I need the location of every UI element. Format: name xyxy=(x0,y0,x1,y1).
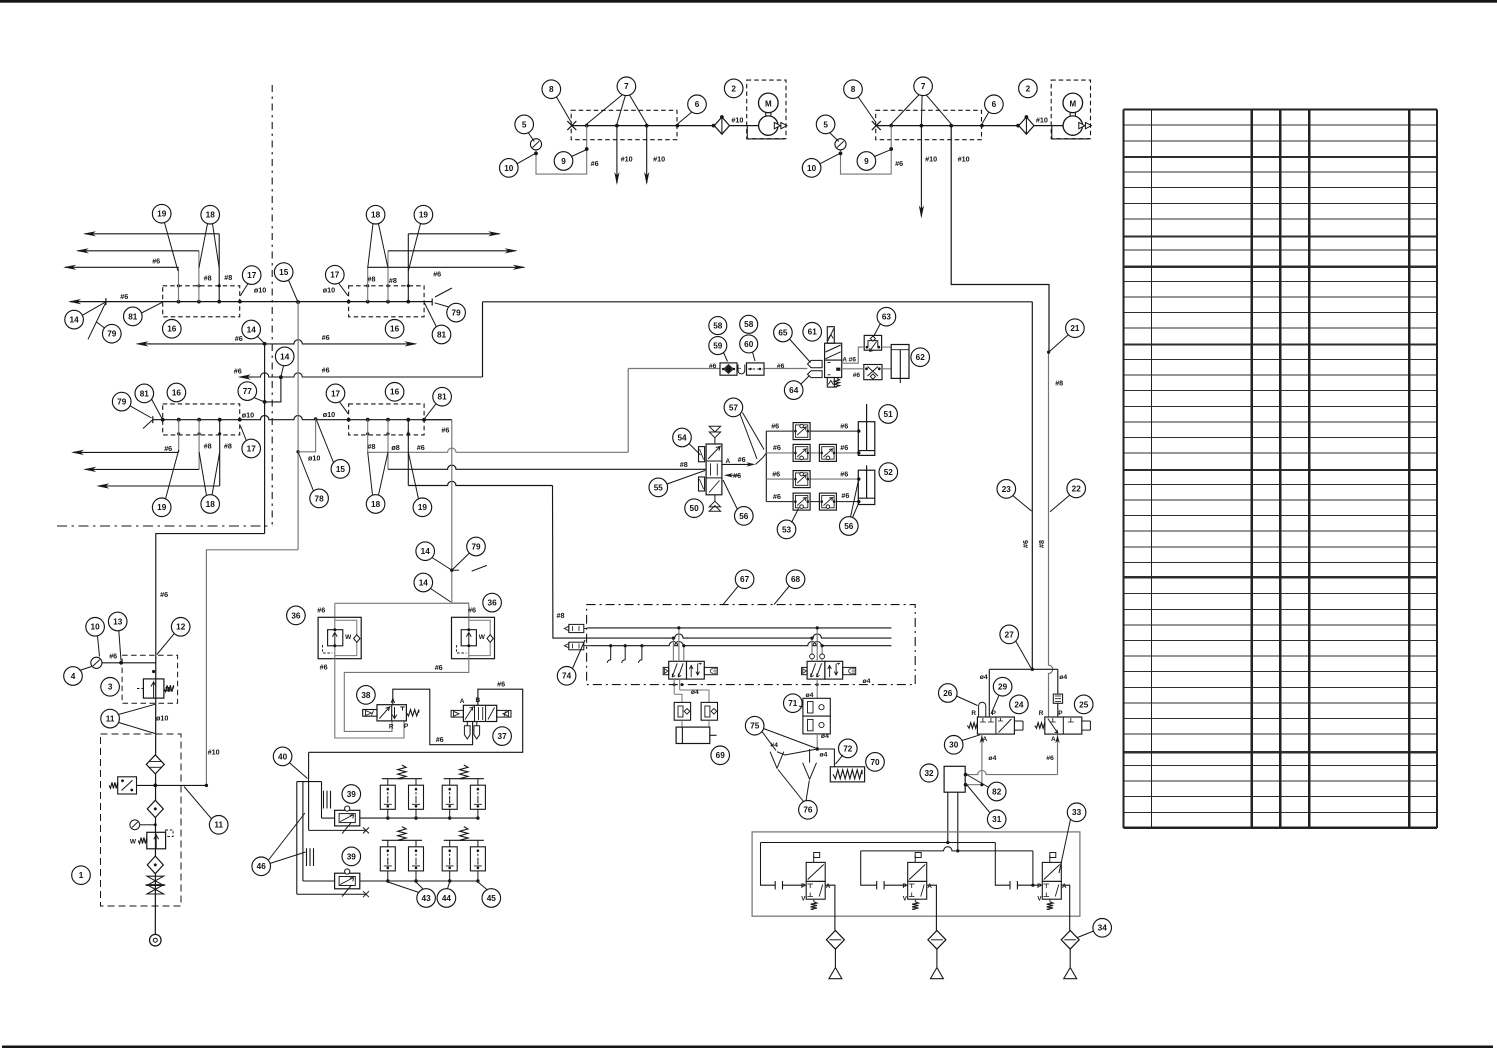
svg-text:58: 58 xyxy=(744,320,754,329)
valve 38 A wire to valve 37 xyxy=(393,689,473,745)
balloon 17 xyxy=(326,384,345,403)
svg-text:#6: #6 xyxy=(895,159,903,168)
svg-text:A: A xyxy=(842,357,847,364)
svg-text:R: R xyxy=(389,724,394,731)
svg-text:24: 24 xyxy=(1014,700,1024,709)
svg-text:#8: #8 xyxy=(557,611,565,620)
#8 wire from LR manifold to control manifold xyxy=(553,486,587,639)
filter 3 xyxy=(147,856,163,874)
compressor pump circle xyxy=(1063,116,1082,135)
pilot chain main wire xyxy=(628,368,720,370)
cylinder row riser xyxy=(765,431,767,502)
svg-text:A: A xyxy=(826,883,831,890)
break slash lower-left xyxy=(143,419,154,429)
svg-text:44: 44 xyxy=(442,894,452,903)
balloon 25 xyxy=(1074,695,1093,714)
svg-text:#6: #6 xyxy=(234,367,242,376)
balloon 70 xyxy=(866,753,885,772)
air prep supply wire elbow xyxy=(156,534,265,656)
svg-text:#6: #6 xyxy=(320,663,328,672)
svg-text:#6: #6 xyxy=(591,159,599,168)
check valve 71 a xyxy=(803,698,830,716)
valve 38 spring xyxy=(406,710,418,716)
balloon 8 xyxy=(844,80,863,99)
balloon 58 xyxy=(740,315,758,333)
svg-text:#10: #10 xyxy=(731,116,743,125)
main air line xyxy=(572,125,759,127)
svg-text:#8: #8 xyxy=(389,276,397,285)
svg-text:#6: #6 xyxy=(709,363,717,370)
svg-text:#6: #6 xyxy=(840,469,848,478)
balloon 7 xyxy=(617,77,636,96)
valve 24 P drop xyxy=(988,669,990,722)
svg-text:#6: #6 xyxy=(164,444,172,453)
valve 71 output drop xyxy=(816,679,818,698)
balloon 61 xyxy=(803,323,822,342)
svg-text:6: 6 xyxy=(992,100,997,109)
valve 61 body xyxy=(825,360,842,377)
svg-text:67: 67 xyxy=(740,575,750,584)
svg-text:5: 5 xyxy=(522,120,527,129)
balloon 79 xyxy=(467,537,486,556)
balloon 64 xyxy=(784,381,803,400)
balloon 51 xyxy=(879,405,898,424)
svg-text:58: 58 xyxy=(713,322,723,331)
main lower header line (o10) xyxy=(153,416,452,420)
dump valve enclosure xyxy=(752,832,1080,916)
svg-text:52: 52 xyxy=(884,468,894,477)
test port wire 2 xyxy=(297,893,366,895)
valve 61 bottom pilot with spring xyxy=(827,378,834,388)
plugged port X symbol xyxy=(872,121,881,130)
balloon 18 xyxy=(201,205,220,224)
svg-text:14: 14 xyxy=(247,325,257,334)
svg-text:9: 9 xyxy=(561,157,566,166)
quick exhaust V symbols 75/76 xyxy=(777,749,817,755)
svg-text:30: 30 xyxy=(949,741,959,750)
svg-text:#6: #6 xyxy=(733,471,741,480)
svg-text:11: 11 xyxy=(106,715,115,724)
svg-text:4: 4 xyxy=(71,672,76,681)
relief valve 36 left box xyxy=(318,617,361,658)
valve A output wires xyxy=(981,734,983,785)
svg-text:17: 17 xyxy=(330,271,340,280)
pressure gauge xyxy=(835,139,846,150)
wire corner to upper right header xyxy=(482,302,484,377)
balloon 72 xyxy=(839,739,858,758)
bus plug fitting C xyxy=(569,642,584,650)
svg-text:56: 56 xyxy=(739,512,749,521)
svg-text:75: 75 xyxy=(750,722,760,731)
balloon 63 xyxy=(877,307,896,326)
compressor pump circle xyxy=(759,116,778,135)
svg-text:#6: #6 xyxy=(235,334,243,343)
svg-text:10: 10 xyxy=(504,164,514,173)
flow control 64 lower xyxy=(864,365,882,380)
balloon 36 xyxy=(287,606,306,625)
svg-text:ø10: ø10 xyxy=(156,714,168,723)
svg-text:#6: #6 xyxy=(773,492,781,501)
svg-text:P: P xyxy=(903,883,907,890)
svg-text:43: 43 xyxy=(422,894,432,903)
svg-text:56: 56 xyxy=(844,522,854,531)
svg-text:62: 62 xyxy=(916,353,926,362)
svg-text:ø4: ø4 xyxy=(980,674,988,681)
check pair bank1 left xyxy=(380,785,395,809)
#6 riser wire from upper header xyxy=(1031,302,1033,670)
svg-text:ø4: ø4 xyxy=(1059,674,1067,681)
balloon 44 xyxy=(437,889,456,908)
svg-text:#6: #6 xyxy=(322,333,330,342)
svg-text:ø10: ø10 xyxy=(308,454,320,463)
check valve 71 b xyxy=(803,716,830,734)
pilot valve 24 xyxy=(977,717,1014,734)
balloon 18 xyxy=(366,205,385,224)
svg-text:7: 7 xyxy=(624,82,629,91)
check pair bank2 left xyxy=(380,847,395,871)
balloon 33 xyxy=(1067,803,1086,822)
svg-text:19: 19 xyxy=(157,503,167,512)
bus line A xyxy=(587,627,891,629)
svg-text:#10: #10 xyxy=(1036,116,1048,125)
compressor receiver dashed box xyxy=(571,110,677,139)
svg-text:79: 79 xyxy=(452,309,462,318)
svg-text:40: 40 xyxy=(278,752,288,761)
svg-text:51: 51 xyxy=(884,410,894,419)
svg-text:61: 61 xyxy=(808,328,818,337)
svg-text:#10: #10 xyxy=(958,155,970,164)
balloon 16 xyxy=(385,383,404,402)
balloon 81 xyxy=(433,387,452,406)
plugged port X symbol xyxy=(567,121,576,130)
check pair bank2 right xyxy=(442,847,457,871)
svg-text:#6: #6 xyxy=(322,365,330,374)
balloon 39 xyxy=(342,847,361,866)
flow control 63 xyxy=(864,335,881,350)
cylinder 52 xyxy=(858,470,875,504)
svg-text:57: 57 xyxy=(729,403,739,412)
svg-text:13: 13 xyxy=(113,617,123,626)
horizontal boundary dashed line xyxy=(57,525,272,527)
svg-text:18: 18 xyxy=(206,211,216,220)
svg-text:#6: #6 xyxy=(468,605,476,614)
balloon 14 xyxy=(242,320,261,339)
balloon 67 xyxy=(735,570,754,589)
main air line xyxy=(876,125,1063,127)
main header line upper (o10) xyxy=(70,301,432,303)
svg-text:64: 64 xyxy=(789,386,799,395)
dump valve 1 feed xyxy=(761,843,776,886)
pressure gauge xyxy=(530,139,541,150)
manifold LL stub 2 xyxy=(198,420,200,470)
svg-text:#8: #8 xyxy=(1055,379,1063,388)
air prep main vertical line xyxy=(154,655,157,940)
svg-text:#6: #6 xyxy=(1021,540,1030,548)
balloon 74 xyxy=(557,667,576,686)
balloon 11 xyxy=(101,709,120,728)
svg-text:#6: #6 xyxy=(120,292,128,301)
balloon 22 xyxy=(1067,479,1086,498)
union U fitting xyxy=(738,365,745,374)
balloon 19 xyxy=(152,498,171,517)
svg-text:M: M xyxy=(765,99,772,108)
pilot chain wire riser xyxy=(627,369,629,453)
svg-text:38: 38 xyxy=(361,691,371,700)
balloon 55 xyxy=(649,478,668,497)
break slash upper-right xyxy=(435,288,452,297)
manifold UR stub 1 xyxy=(367,267,369,301)
svg-text:81: 81 xyxy=(140,389,150,398)
hose symbol marks 1 xyxy=(323,791,325,809)
valve 71 feed drops xyxy=(811,638,813,661)
block 32 outputs xyxy=(947,792,949,842)
svg-text:P: P xyxy=(1037,883,1041,890)
svg-text:ø10: ø10 xyxy=(254,286,266,295)
inter-manifold wire 1 (#6) xyxy=(137,343,150,345)
svg-text:10: 10 xyxy=(807,164,817,173)
break slash upper-left xyxy=(88,301,107,339)
balloon 9 xyxy=(554,152,573,171)
dump valve 2 feed xyxy=(861,851,877,885)
balloon 46 xyxy=(252,857,271,876)
svg-text:#6: #6 xyxy=(435,663,443,672)
svg-text:ø4: ø4 xyxy=(691,689,699,696)
dump valve 2 output xyxy=(927,885,937,931)
wire valve61 A to 63 to cylinder 62 xyxy=(842,347,865,363)
shutoff valve double bowtie xyxy=(147,876,164,885)
dump valve 3 output xyxy=(1061,885,1069,931)
balloon 43 xyxy=(417,889,436,908)
valve 61 port pod 64 xyxy=(808,371,823,378)
flow control row1 xyxy=(793,423,810,440)
valve 50 A port wire xyxy=(722,463,753,465)
balloon 69 xyxy=(711,746,730,765)
svg-text:15: 15 xyxy=(336,465,346,474)
balloon 17 xyxy=(326,265,345,284)
svg-text:21: 21 xyxy=(1070,324,1080,333)
manifold UL stub 3 xyxy=(218,234,220,302)
balloon 58 xyxy=(709,317,727,335)
wire riser top to relief valves xyxy=(452,602,469,604)
silencer 26 xyxy=(979,702,986,717)
valve 25 P drop xyxy=(1057,669,1059,722)
svg-text:#6: #6 xyxy=(109,652,117,661)
svg-text:ø10: ø10 xyxy=(323,410,335,419)
dump valve solenoid xyxy=(806,862,825,881)
balloon 14 xyxy=(414,573,433,592)
balloon 15 xyxy=(331,460,350,479)
manifold UR stub 2 xyxy=(387,251,389,302)
svg-text:#6: #6 xyxy=(738,455,746,464)
auto drain valve xyxy=(118,777,137,794)
lower bank output wire xyxy=(360,880,478,882)
svg-text:53: 53 xyxy=(782,525,792,534)
manifold lower-right dashed box xyxy=(349,404,425,435)
distribution drop 1 (#10) xyxy=(920,126,922,216)
svg-text:82: 82 xyxy=(992,787,1002,796)
svg-text:19: 19 xyxy=(419,211,429,220)
valve 61 coil box xyxy=(825,343,842,360)
balloon 59 xyxy=(709,337,727,355)
dump valve solenoid xyxy=(1042,862,1061,881)
balloon 77 xyxy=(238,382,257,401)
svg-text:#6: #6 xyxy=(417,443,425,452)
wire valve61 B to cylinder 62 bottom xyxy=(842,368,864,370)
balloon 14 xyxy=(65,310,84,329)
svg-text:6: 6 xyxy=(695,100,700,109)
svg-text:34: 34 xyxy=(1098,924,1108,933)
check pair bank1 right xyxy=(442,785,457,809)
svg-text:#6: #6 xyxy=(1046,755,1054,762)
balloon 30 xyxy=(944,736,963,755)
valve 50 B port arrow xyxy=(724,473,733,477)
svg-text:17: 17 xyxy=(331,389,341,398)
compressor receiver dashed box xyxy=(876,110,982,139)
bus plug fitting A xyxy=(569,624,584,632)
balloon 31 xyxy=(987,810,1006,829)
balloon 32 xyxy=(920,764,938,782)
svg-text:63: 63 xyxy=(882,313,892,322)
svg-text:33: 33 xyxy=(1072,808,1082,817)
balloon 37 xyxy=(493,727,512,746)
balloon 36 xyxy=(483,593,502,612)
balloon 16 xyxy=(167,383,186,402)
svg-text:19: 19 xyxy=(418,503,428,512)
balloon 56 xyxy=(735,507,754,526)
svg-text:18: 18 xyxy=(371,500,381,509)
svg-text:14: 14 xyxy=(280,352,290,361)
balloon 54 xyxy=(673,428,692,447)
svg-text:ø8: ø8 xyxy=(391,443,399,452)
svg-text:7: 7 xyxy=(921,82,926,91)
upper bank output wire xyxy=(360,817,478,819)
control manifold 67/68 dashed box xyxy=(587,605,916,685)
svg-text:74: 74 xyxy=(562,672,572,681)
gauge line with test gauge 4 xyxy=(102,662,155,664)
balloon 3 xyxy=(101,678,120,697)
balloon 23 xyxy=(997,480,1016,499)
motor M circle xyxy=(759,93,779,113)
svg-text:#6: #6 xyxy=(841,491,849,500)
break slash near riser xyxy=(472,565,487,571)
balloon 82 xyxy=(987,782,1006,801)
flow control valve 39 lower xyxy=(335,873,360,889)
balloon 10 xyxy=(86,618,105,637)
quick coupling outlet xyxy=(150,934,162,946)
inline component 28 xyxy=(1053,694,1062,703)
balloon 18 xyxy=(366,495,385,514)
balloon 24 xyxy=(1010,695,1029,714)
regulator 2 with W spring xyxy=(147,832,166,849)
#8 riser wire down right side xyxy=(1049,352,1053,717)
svg-text:3: 3 xyxy=(108,683,113,692)
o10 supply elbow to air prep xyxy=(206,550,298,786)
balloon 1 xyxy=(72,866,91,885)
unit 1 dashed enclosure xyxy=(101,734,182,906)
check valve diamond xyxy=(714,117,729,134)
check valve diamond xyxy=(1019,117,1034,134)
drain to regulator wire xyxy=(137,784,207,786)
dump valve 3 feed xyxy=(995,843,1010,886)
manifold LR stub 3 wire to control manifold xyxy=(407,420,409,486)
svg-text:27: 27 xyxy=(1005,630,1015,639)
svg-text:36: 36 xyxy=(488,599,498,608)
svg-text:25: 25 xyxy=(1079,700,1089,709)
svg-text:15: 15 xyxy=(279,268,289,277)
svg-text:#8: #8 xyxy=(224,273,232,282)
junction dots xyxy=(585,124,589,128)
cylinder row 3 wire xyxy=(766,478,859,480)
valve 50 bottom pilot triangles xyxy=(709,501,720,511)
balloon 17 xyxy=(242,266,261,285)
balloon 12 xyxy=(171,618,190,637)
balloon 17 xyxy=(242,439,261,458)
svg-text:#6: #6 xyxy=(772,469,780,478)
svg-text:26: 26 xyxy=(943,689,953,698)
svg-text:#6: #6 xyxy=(840,443,848,452)
svg-text:31: 31 xyxy=(992,815,1002,824)
balloon 53 xyxy=(777,520,796,539)
svg-text:37: 37 xyxy=(498,732,508,741)
svg-text:65: 65 xyxy=(778,328,788,337)
svg-text:ø4: ø4 xyxy=(821,733,829,740)
svg-text:79: 79 xyxy=(117,398,127,407)
flow control valve 39 upper xyxy=(335,810,360,826)
balloon 7 xyxy=(914,77,933,96)
svg-text:60: 60 xyxy=(744,340,754,349)
valve 61 port pod 65 xyxy=(808,360,823,367)
svg-text:79: 79 xyxy=(107,330,117,339)
svg-text:5: 5 xyxy=(823,120,828,129)
svg-text:18: 18 xyxy=(371,211,381,220)
hose symbol marks 2 xyxy=(306,848,308,866)
balloon 50 xyxy=(685,499,704,518)
svg-text:#6: #6 xyxy=(441,426,449,435)
filter water separator xyxy=(146,755,164,774)
air prep supply vertical (#6) xyxy=(264,344,266,534)
svg-text:W: W xyxy=(130,839,137,846)
svg-text:#6: #6 xyxy=(849,357,857,364)
regulator 3 symbol xyxy=(143,679,164,698)
port drop with gauge xyxy=(841,126,892,175)
manifold UL ports xyxy=(177,300,181,304)
svg-text:#6: #6 xyxy=(773,443,781,452)
balloon 2 xyxy=(724,79,743,98)
balloon 18 xyxy=(201,495,220,514)
svg-text:72: 72 xyxy=(843,744,853,753)
svg-text:ø4: ø4 xyxy=(863,678,871,685)
manifold LL ports xyxy=(177,418,181,422)
svg-text:#10: #10 xyxy=(653,155,665,164)
cylinder 62 xyxy=(891,345,909,379)
wire to stop 70 xyxy=(817,749,834,767)
balloon 56 xyxy=(840,517,859,536)
svg-text:8: 8 xyxy=(549,85,554,94)
manifold UL stub 2 xyxy=(198,251,200,302)
svg-text:54: 54 xyxy=(677,433,687,442)
valve 37 pilots xyxy=(451,710,463,717)
svg-text:70: 70 xyxy=(870,758,880,767)
svg-text:2: 2 xyxy=(731,84,736,93)
svg-text:55: 55 xyxy=(654,483,664,492)
inter-manifold wire 2 (#6) xyxy=(240,376,252,378)
balloon 26 xyxy=(939,684,958,703)
balloon 71 xyxy=(784,694,803,713)
svg-text:77: 77 xyxy=(243,387,253,396)
svg-text:W: W xyxy=(479,634,486,641)
balloon 5 xyxy=(515,115,534,134)
svg-text:P: P xyxy=(1058,710,1063,717)
